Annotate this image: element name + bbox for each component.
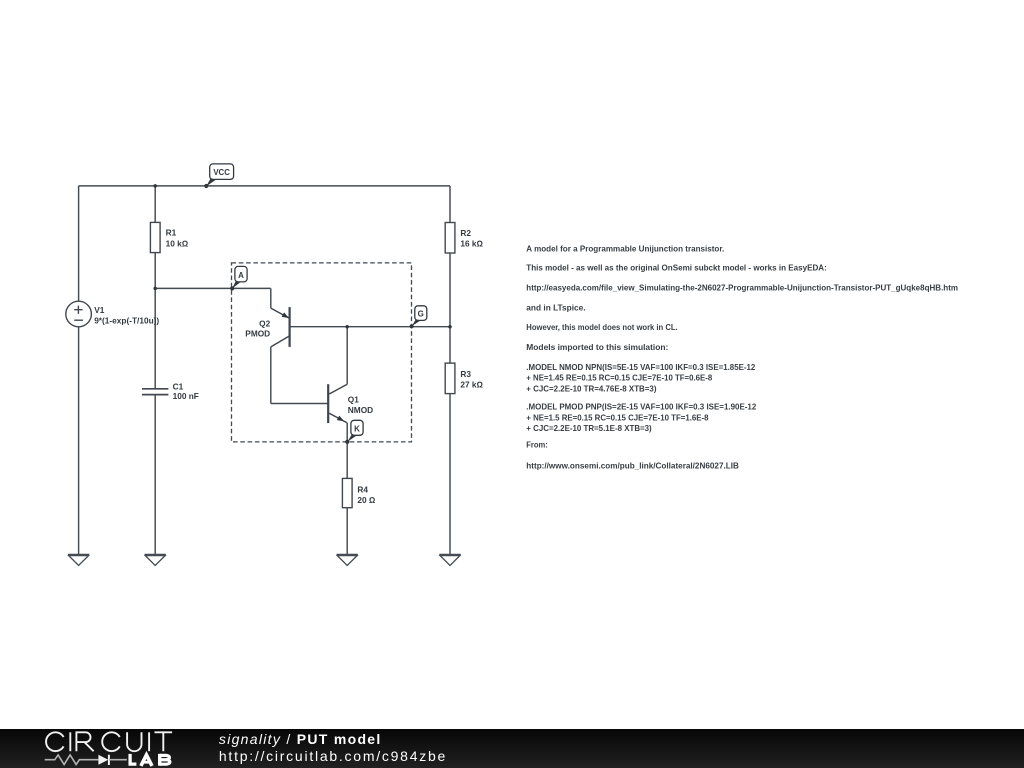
wire R2 to R3 — [449, 253, 451, 363]
CircuitLab wordmark CIRCUIT — [46, 732, 172, 751]
svg-text:9*(1-exp(-T/10u)): 9*(1-exp(-T/10u)) — [94, 315, 159, 325]
wire Q1 collector stub — [346, 327, 348, 385]
svg-text:R3: R3 — [460, 369, 471, 379]
logo diode — [98, 755, 127, 765]
svg-text:R1: R1 — [166, 228, 177, 238]
svg-text:+ CJC=2.2E-10 TR=5.1E-8 XTB=3): + CJC=2.2E-10 TR=5.1E-8 XTB=3) — [526, 424, 652, 433]
resistor R1 — [150, 222, 160, 252]
wire V1 bottom to ground — [78, 327, 80, 555]
wire C1 to ground — [154, 395, 156, 554]
svg-text:K: K — [354, 425, 360, 434]
wire V1 top — [78, 186, 80, 301]
svg-text:27 kΩ: 27 kΩ — [460, 379, 483, 389]
svg-text:PMOD: PMOD — [245, 329, 270, 339]
svg-text:16 kΩ: 16 kΩ — [460, 239, 483, 249]
svg-text:and in LTspice.: and in LTspice. — [526, 303, 585, 312]
wire R4 to ground — [346, 508, 348, 555]
svg-text:Q2: Q2 — [259, 319, 270, 329]
wire Q2 collector to Q1 base — [271, 403, 328, 405]
flag node A — [230, 266, 247, 290]
svg-text:From:: From: — [526, 440, 548, 449]
svg-text:VCC: VCC — [213, 168, 230, 177]
svg-text:V1: V1 — [94, 305, 105, 315]
voltage source V1 — [66, 301, 92, 327]
svg-text:+ CJC=2.2E-10 TR=4.76E-8 XTB=3: + CJC=2.2E-10 TR=4.76E-8 XTB=3) — [526, 384, 656, 393]
wire Q2 emitter stub — [270, 288, 272, 308]
svg-text:10 kΩ: 10 kΩ — [166, 238, 189, 248]
svg-text:+ NE=1.5 RE=0.15 RC=0.15 CJE=7: + NE=1.5 RE=0.15 RC=0.15 CJE=7E-10 TF=1.… — [526, 413, 709, 422]
attribution url — [219, 749, 447, 763]
svg-text:.MODEL NMOD NPN(IS=5E-15 VAF=1: .MODEL NMOD NPN(IS=5E-15 VAF=100 IKF=0.3… — [526, 363, 755, 372]
logo LAB letters — [130, 754, 170, 766]
svg-text:G: G — [418, 310, 424, 319]
flag VCC — [204, 164, 233, 188]
svg-text:R2: R2 — [460, 228, 471, 238]
resistor R4 — [342, 478, 352, 507]
wire R3 to ground — [449, 394, 451, 555]
attribution title — [219, 732, 382, 746]
wire R1 stem top — [154, 186, 156, 223]
transistor Q1 NPN — [328, 384, 347, 423]
svg-text:R4: R4 — [357, 484, 368, 494]
svg-text:100 nF: 100 nF — [173, 391, 199, 401]
dashed subcircuit box — [232, 263, 412, 442]
svg-text:Models imported to this simula: Models imported to this simulation: — [526, 343, 668, 352]
transistor Q2 PNP — [271, 307, 290, 347]
wire Q2 collector stub — [270, 347, 272, 404]
flag node K — [345, 420, 363, 444]
wire node A horizontal — [155, 287, 271, 289]
logo resistor squiggle — [45, 755, 99, 765]
svg-text:20 Ω: 20 Ω — [357, 495, 376, 505]
svg-text:NMOD: NMOD — [348, 405, 373, 415]
svg-text:However, this model does not w: However, this model does not work in CL. — [526, 323, 677, 332]
ground for R3 — [439, 555, 460, 566]
svg-text:Q1: Q1 — [348, 395, 359, 405]
svg-text:+ NE=1.45 RE=0.15 RC=0.15 CJE=: + NE=1.45 RE=0.15 RC=0.15 CJE=7E-10 TF=0… — [526, 374, 712, 383]
node junction at R1 top rail — [153, 184, 157, 188]
wire R1 bottom to C1 — [154, 253, 156, 388]
svg-text:A model for a Programmable Uni: A model for a Programmable Unijunction t… — [526, 244, 724, 253]
wire Q2 base to R2R3 node G — [290, 326, 450, 328]
node junction at A wire — [153, 287, 157, 291]
ground for C1 — [145, 555, 166, 566]
resistor R3 — [445, 363, 455, 394]
wire top rail VCC — [79, 185, 450, 187]
wire Q1 emitter to R4 — [346, 423, 348, 479]
svg-text:http://easyeda.com/file_view_S: http://easyeda.com/file_view_Simulating-… — [526, 284, 958, 293]
svg-text:A: A — [238, 271, 244, 280]
wire R2 stem top — [449, 186, 451, 223]
svg-text:http://www.onsemi.com/pub_link: http://www.onsemi.com/pub_link/Collatera… — [526, 461, 739, 470]
ground for V1 — [68, 555, 89, 566]
ground for R4 — [337, 555, 358, 566]
node junction G on R2R3 — [448, 325, 452, 329]
capacitor C1 — [142, 389, 168, 395]
svg-text:.MODEL PMOD PNP(IS=2E-15 VAF=1: .MODEL PMOD PNP(IS=2E-15 VAF=100 IKF=0.3… — [526, 403, 756, 412]
node junction Q1 collector on base wire — [345, 325, 349, 329]
resistor R2 — [445, 223, 455, 254]
flag node G — [410, 306, 427, 329]
svg-text:This model - as well as the or: This model - as well as the original OnS… — [526, 264, 827, 273]
